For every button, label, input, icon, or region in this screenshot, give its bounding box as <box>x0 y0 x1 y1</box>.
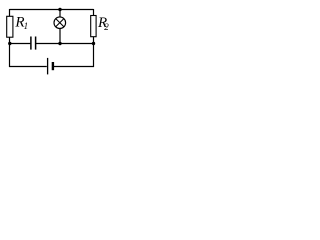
resistor R1 <box>7 15 28 37</box>
node junction left (middle wire to left wire) <box>8 42 11 45</box>
battery long plate (positive) <box>47 58 49 75</box>
node junction right (middle wire to right wire) <box>92 42 95 45</box>
wire bottom right (from battery) <box>54 66 94 68</box>
wire right vertical <box>93 9 95 67</box>
wire middle right (from capacitor) <box>36 43 94 45</box>
svg-text:2: 2 <box>104 22 109 32</box>
wire middle left (to capacitor) <box>10 43 31 45</box>
node junction center (lamp to middle wire) <box>58 42 61 45</box>
wire left vertical <box>9 9 11 67</box>
wire lamp branch lower <box>59 28 61 43</box>
wire top (node between R1 top and R2 top) <box>10 9 94 11</box>
battery short plate (negative) <box>52 62 54 70</box>
wire lamp branch upper <box>59 10 61 18</box>
svg-text:1: 1 <box>24 21 29 31</box>
capacitor C1 left plate <box>30 37 32 50</box>
lamp L1 (circle with cross) <box>54 17 66 29</box>
capacitor C1 right plate <box>35 37 37 50</box>
node junction top (lamp to top wire) <box>58 8 61 11</box>
resistor R2 <box>91 15 110 37</box>
wire bottom left (to battery) <box>9 66 47 68</box>
